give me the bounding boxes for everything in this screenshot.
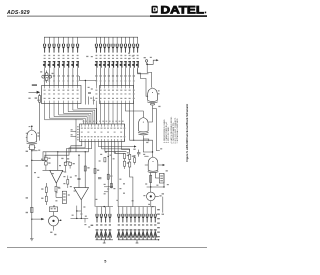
current source I2 — [48, 37, 51, 52]
resistor R9 — [55, 186, 57, 191]
encoder U3 left pin stubs — [77, 126, 79, 140]
wire: encoder bit 7 — [102, 142, 130, 152]
resistor stack R18 R19 — [129, 154, 131, 169]
wire: Q26 emitter — [53, 226, 55, 231]
wire: R9 to mirror — [55, 192, 57, 198]
transistor Q8 — [76, 58, 79, 69]
svg-text:DATEL: DATEL — [161, 5, 205, 17]
analog input arrow VIN — [29, 91, 41, 94]
wire: U5 output — [143, 136, 152, 152]
transistor Q14 — [115, 58, 118, 69]
comparator bank U1 (box) — [42, 86, 82, 104]
wire: latch output drop — [133, 104, 135, 141]
resistor R22 (boxed, bias) — [159, 173, 164, 183]
current source I8 — [76, 37, 79, 52]
transistor Q13 — [111, 58, 114, 69]
wire: driver ladder right rail — [154, 173, 156, 178]
wire: encoder bit 2 to output bus — [45, 142, 85, 161]
svg-text:5: 5 — [104, 260, 106, 264]
wire: Q25 emitter — [150, 201, 152, 207]
wire: ladder column 5 to comparator bank 1 — [62, 68, 64, 85]
output diode D19 — [117, 229, 120, 239]
transistor Q4 — [57, 58, 60, 69]
current source I10 — [99, 37, 102, 52]
transistor Q3 — [52, 58, 55, 69]
wire: encoder bit 8 — [105, 142, 127, 152]
wire: encoder left feed — [75, 119, 77, 152]
junction: clock node — [146, 63, 148, 65]
notes column 2 (rotated) — [170, 116, 179, 143]
wire bus: comparator bank 1 outputs to encoder — [45, 104, 97, 125]
junction: rail corner — [31, 160, 32, 161]
resistor stack R16 R17 — [123, 154, 125, 170]
encoder U3 pin ticks and labels — [82, 124, 125, 142]
junction: amp B feed a — [78, 155, 79, 156]
wire: amp B output — [80, 200, 82, 219]
wire: amp A apex feed — [57, 152, 59, 171]
ground symbol (left rail) — [30, 239, 34, 241]
transistor Q9 — [95, 58, 98, 69]
wire: encoder bit 13 — [121, 142, 129, 155]
wire: encoder left stub 1 — [71, 131, 77, 133]
wire: encoder bit 1 to output bus — [43, 142, 82, 161]
wire: driver array 1 bottom bus — [96, 239, 114, 241]
node: comparator gate input — [31, 126, 33, 128]
junction: bus end — [158, 239, 159, 240]
wire: ladder column 10 to comparator bank 2 — [100, 68, 102, 85]
resistor R6 (amp A input) — [45, 162, 48, 171]
output diode D27 — [150, 229, 153, 239]
resistor R13 — [94, 169, 96, 174]
resistor R24 (inter-amp) — [67, 176, 69, 189]
wire: amp B input b — [84, 152, 86, 188]
wire: gate U8 apex stub — [31, 127, 33, 130]
wire: Q25 base — [150, 187, 152, 192]
wire: ladder column 9 to comparator bank 2 — [95, 68, 97, 85]
capacitor C2 (on amp B input) — [77, 178, 80, 179]
current source I15 — [120, 37, 123, 52]
header rule — [7, 16, 150, 17]
current source I11 — [103, 37, 106, 52]
junction: tie a — [76, 210, 77, 211]
wire: encoder bit 12 to driver array — [117, 142, 119, 207]
wire: ladder column 3 to comparator bank 1 — [53, 68, 55, 85]
wire: encoder bit 4 to cluster B — [67, 142, 92, 163]
current source I4 — [57, 37, 60, 52]
transistor Q7 — [71, 58, 74, 69]
driver diode D5 — [95, 229, 98, 239]
current source I14 — [116, 37, 119, 52]
wire: driver array 1 top bus — [96, 206, 114, 208]
wire: driver array 2 bottom bus — [118, 239, 159, 241]
driver diode D7 — [104, 229, 107, 239]
transistor Q1 — [43, 58, 46, 69]
wire: overrange output to gate U5 — [125, 104, 143, 118]
comparator bank U2 pin ticks and labels — [96, 86, 133, 104]
resistor R14 — [107, 174, 109, 179]
output diode D23 — [133, 229, 136, 239]
output diode D24 — [137, 229, 140, 239]
wire: interbank bus — [80, 76, 97, 81]
output diode D16 — [146, 207, 149, 223]
wire: interbank drop B — [87, 97, 89, 105]
output diode D17 — [150, 207, 153, 223]
output driver transistor Q25 (TO can) — [147, 192, 156, 201]
output diode D28 — [154, 229, 157, 239]
wire bus: comparator bank 2 outputs to encoder — [96, 104, 121, 125]
wire: driver array 2 top bus — [118, 206, 156, 208]
junction: rail-bus tie — [42, 160, 43, 161]
wire: U4 output tap — [153, 109, 160, 151]
ground symbol (array 1) — [103, 242, 106, 244]
current source I19 — [136, 37, 139, 52]
footer rule — [7, 246, 207, 249]
output pin labels (rotated) — [157, 209, 160, 237]
junction: amp B out node — [81, 218, 82, 219]
output transistor Q26 (TO can) — [49, 216, 59, 226]
wire: Q26 right stub — [59, 219, 61, 221]
resistor R8 (amp B path) — [69, 162, 72, 168]
current mirror Q23 (tall box) — [62, 191, 66, 203]
current source I5 — [62, 37, 65, 52]
svg-text:3. PIN 9 IS CASE.: 3. PIN 9 IS CASE. — [167, 126, 170, 143]
op-amp U9 (amp A) — [50, 170, 63, 183]
current source I17 — [128, 37, 131, 52]
wire: ladder column 7 to comparator bank 1 — [72, 68, 74, 85]
wire: ladder column 15 to comparator bank 2 — [120, 68, 122, 85]
wire: +VREF top bus — [44, 36, 138, 38]
resistor R15 — [134, 156, 136, 165]
svg-text:Figure 5. ADS-929 Functional B: Figure 5. ADS-929 Functional Block Schem… — [185, 103, 189, 161]
wire: Q26 base rail with arrow — [32, 218, 45, 220]
junction: tie b — [76, 218, 77, 219]
output diode D12 — [129, 207, 132, 223]
node VIN label — [32, 84, 37, 86]
wire: R11-R12 chain — [45, 183, 47, 205]
output diode D26 — [145, 229, 148, 239]
transistor Q5 — [62, 58, 65, 69]
resistor R21 (ladder left) — [150, 175, 152, 182]
wire: amp A output — [55, 183, 57, 186]
wire: U6 left stub 2 — [145, 164, 148, 166]
wire: sign output to gate U6 — [130, 104, 153, 153]
current source I13 — [111, 37, 114, 52]
wire: encoder bit 10 — [111, 142, 113, 189]
wire: ladder column 1 to comparator bank 1 — [44, 68, 46, 85]
junction: interbank node — [85, 80, 86, 81]
DATEL logo mark — [152, 6, 158, 13]
capacitor C5 — [137, 150, 140, 157]
svg-text:ADS-929: ADS-929 — [6, 10, 30, 16]
XOR gate U6 (output strobe) — [148, 157, 159, 173]
XOR gate U4 (clock phase) — [147, 88, 158, 105]
wire: ladder column 8 to comparator bank 1 — [77, 68, 79, 85]
wire: U8 output stub right — [32, 150, 38, 152]
op-amp U10 (amp B) — [74, 188, 89, 200]
transistor Q18 — [132, 58, 135, 69]
current source I16 — [124, 37, 127, 52]
transistor Q11 — [103, 58, 106, 69]
resistor R12 — [45, 196, 47, 201]
wire: U6 right stub with arrow — [158, 164, 165, 166]
output diode D25 — [141, 229, 144, 239]
transistor Q19 — [136, 58, 139, 69]
driver diode D8 — [108, 229, 111, 239]
wire: U8 left stubs — [26, 133, 28, 137]
output diode D13 — [133, 207, 136, 223]
wire: ladder column 6 to comparator bank 1 — [67, 68, 69, 85]
junction: U8 output — [31, 150, 32, 151]
junction: bit 9 tap — [108, 156, 109, 157]
wire: clock to gate U4 apex — [147, 64, 152, 87]
current source I6 — [67, 37, 70, 52]
bias network transistors Q19-Q22 — [42, 71, 52, 83]
output diode D21 — [125, 229, 128, 239]
svg-text:7. BYPASS ALL SUPPLIES.: 7. BYPASS ALL SUPPLIES. — [176, 118, 179, 144]
wire: U6 left stub — [144, 155, 148, 157]
junction: amp A feed — [57, 151, 58, 152]
output diode D14 — [138, 207, 141, 223]
resistor R1 (input) — [35, 94, 41, 141]
transistor Q2 — [48, 58, 51, 69]
input pin CLOCK (circle) — [145, 60, 147, 62]
transistor Q17 — [128, 58, 131, 69]
wire: mid horizontal rail — [32, 159, 46, 161]
wire: encoder left stub 2 — [71, 136, 77, 138]
wire: ladder column 16 to comparator bank 2 — [124, 68, 126, 85]
comparator bank U2 (box) — [100, 86, 134, 104]
bias cluster below encoder — [104, 183, 116, 194]
wire: ladder column 14 to comparator bank 2 — [116, 68, 118, 85]
comparator bank U1 pin ticks and labels — [45, 86, 78, 104]
wire: U4 output — [148, 106, 152, 122]
output diode D10 — [121, 207, 124, 223]
wire: ladder column 18 to comparator bank 2 — [133, 68, 135, 85]
driver diode D1 — [95, 207, 98, 223]
resistor R23 — [104, 158, 106, 162]
ground symbol (array 2) — [136, 242, 139, 244]
wire: ladder column 11 to comparator bank 2 — [104, 68, 106, 85]
wire: ladder column 2 to comparator bank 1 — [48, 68, 50, 85]
output diode D15 — [142, 207, 145, 223]
junction: ladder-left — [150, 186, 151, 187]
transistor Q10 — [99, 58, 102, 69]
wire: U6 apex feed — [152, 152, 154, 157]
wire: encoder bit 11 — [115, 142, 125, 154]
current source I18 — [132, 37, 135, 52]
wire: clock column drop — [138, 68, 149, 74]
notes column 1 (rotated) — [164, 119, 170, 143]
XOR gate U5 (latch strobe) — [138, 118, 149, 135]
bias box B2 — [49, 207, 57, 212]
crystal Y1 (below U8) — [28, 145, 35, 150]
wire: interbank drop C — [93, 97, 95, 105]
wire: ladder column 12 to comparator bank 2 — [108, 68, 110, 85]
junction: U6 input node — [152, 151, 153, 152]
current source I1 — [43, 37, 46, 52]
driver diode D4 — [108, 207, 111, 223]
wire: encoder bit 5 to driver array — [94, 142, 96, 207]
encoder U3 top pin labels — [83, 121, 124, 122]
junction: array1 bus tap — [104, 206, 105, 207]
output diode D11 — [125, 207, 128, 223]
resistor R2 (on left rail) — [31, 207, 33, 212]
output diode D18 — [154, 207, 157, 223]
junction: sign line — [133, 140, 134, 141]
junction: base rail — [31, 219, 32, 220]
wire: clock staircase to U4 side — [138, 68, 149, 96]
junction: amp B feed b — [85, 151, 86, 152]
wire: ladder right to R22 — [155, 177, 159, 179]
wire: ladder column 17 to comparator bank 2 — [129, 68, 131, 85]
current source I12 — [107, 37, 110, 52]
junction: ladder-right — [163, 186, 164, 187]
resistor R7 (amp B path) — [62, 162, 70, 172]
node: Q26 stub — [60, 220, 62, 222]
driver diode D2 — [100, 207, 103, 223]
wire: amp B out ties — [71, 206, 89, 223]
encoder logic U3 (box) — [80, 124, 125, 142]
transistor Q16 — [124, 58, 127, 69]
wire: encoder bit 3 to amp A — [58, 142, 89, 152]
transistor Q12 — [107, 58, 110, 69]
driver diode D6 — [100, 229, 103, 239]
wire: encoder bit 9 to driver array — [107, 142, 109, 207]
wire: Q25 collector stub — [155, 195, 159, 197]
wire: R9 chain to mirror — [56, 196, 62, 198]
capacitor C3 (interbank) — [88, 92, 91, 93]
resistor R10 — [84, 166, 86, 171]
wire: left supply rail — [31, 150, 33, 239]
wire: output right rail — [162, 197, 164, 213]
wire: Q26 collector — [53, 212, 55, 216]
current source I7 — [71, 37, 74, 52]
wire: ladder bottom bus — [147, 186, 164, 188]
transistor Q6 — [66, 58, 69, 69]
wire: ladder column 4 to comparator bank 1 — [58, 68, 60, 85]
resistor R5 (amp A input) — [45, 152, 48, 162]
wire: driver ladder left rail — [150, 173, 152, 187]
wire: clock pin to node — [146, 62, 148, 63]
wire: array 1 ground stub — [103, 240, 105, 243]
XOR gate U8 (reference clock) — [27, 130, 38, 144]
wire: cluster A bottom link — [43, 169, 51, 171]
wire: clock out with arrow — [147, 59, 158, 64]
wire: U5 output tap — [143, 139, 149, 141]
transistor Q15 — [120, 58, 123, 69]
output diode D20 — [121, 229, 124, 239]
resistor R11 — [45, 187, 47, 192]
current source I9 — [95, 37, 98, 52]
wire: array 2 ground stub — [136, 240, 138, 243]
current source I3 — [52, 37, 55, 52]
wire: encoder bit 6 strobe (arrow) — [98, 142, 136, 148]
wire: aux riser to array 2 — [130, 170, 133, 207]
output diode D22 — [129, 229, 132, 239]
wire: R22 right rail — [163, 173, 165, 187]
capacitor C4 — [98, 178, 101, 179]
driver diode D3 — [104, 207, 107, 223]
wire: amp B input a — [78, 155, 80, 187]
wire: ladder column 13 to comparator bank 2 — [112, 68, 114, 85]
wire: interbank drop A — [84, 81, 86, 105]
output diode D9 — [117, 207, 120, 223]
